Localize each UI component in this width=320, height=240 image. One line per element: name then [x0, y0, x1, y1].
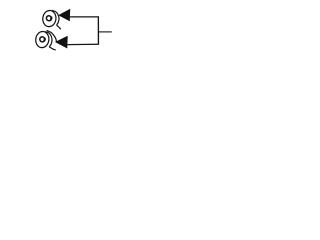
coil S1 middle turn — [42, 10, 57, 28]
arrow A1 — [58, 9, 70, 22]
arrow A2 — [55, 36, 68, 49]
coil S1 outer turn with tail — [52, 11, 60, 29]
coil S2 inner spiral — [40, 37, 45, 42]
coil S2 outermost top-right arc — [47, 31, 56, 42]
coil S2 middle turn — [35, 31, 50, 49]
coil S1 inner spiral — [46, 16, 51, 21]
coil S2 outer turn with tail — [45, 32, 55, 50]
wire W3 vertical bus — [97, 16, 99, 45]
wire W1 top horizontal — [70, 16, 99, 18]
wire W2 bottom horizontal — [67, 43, 98, 45]
wire W4 output stub — [98, 31, 111, 33]
